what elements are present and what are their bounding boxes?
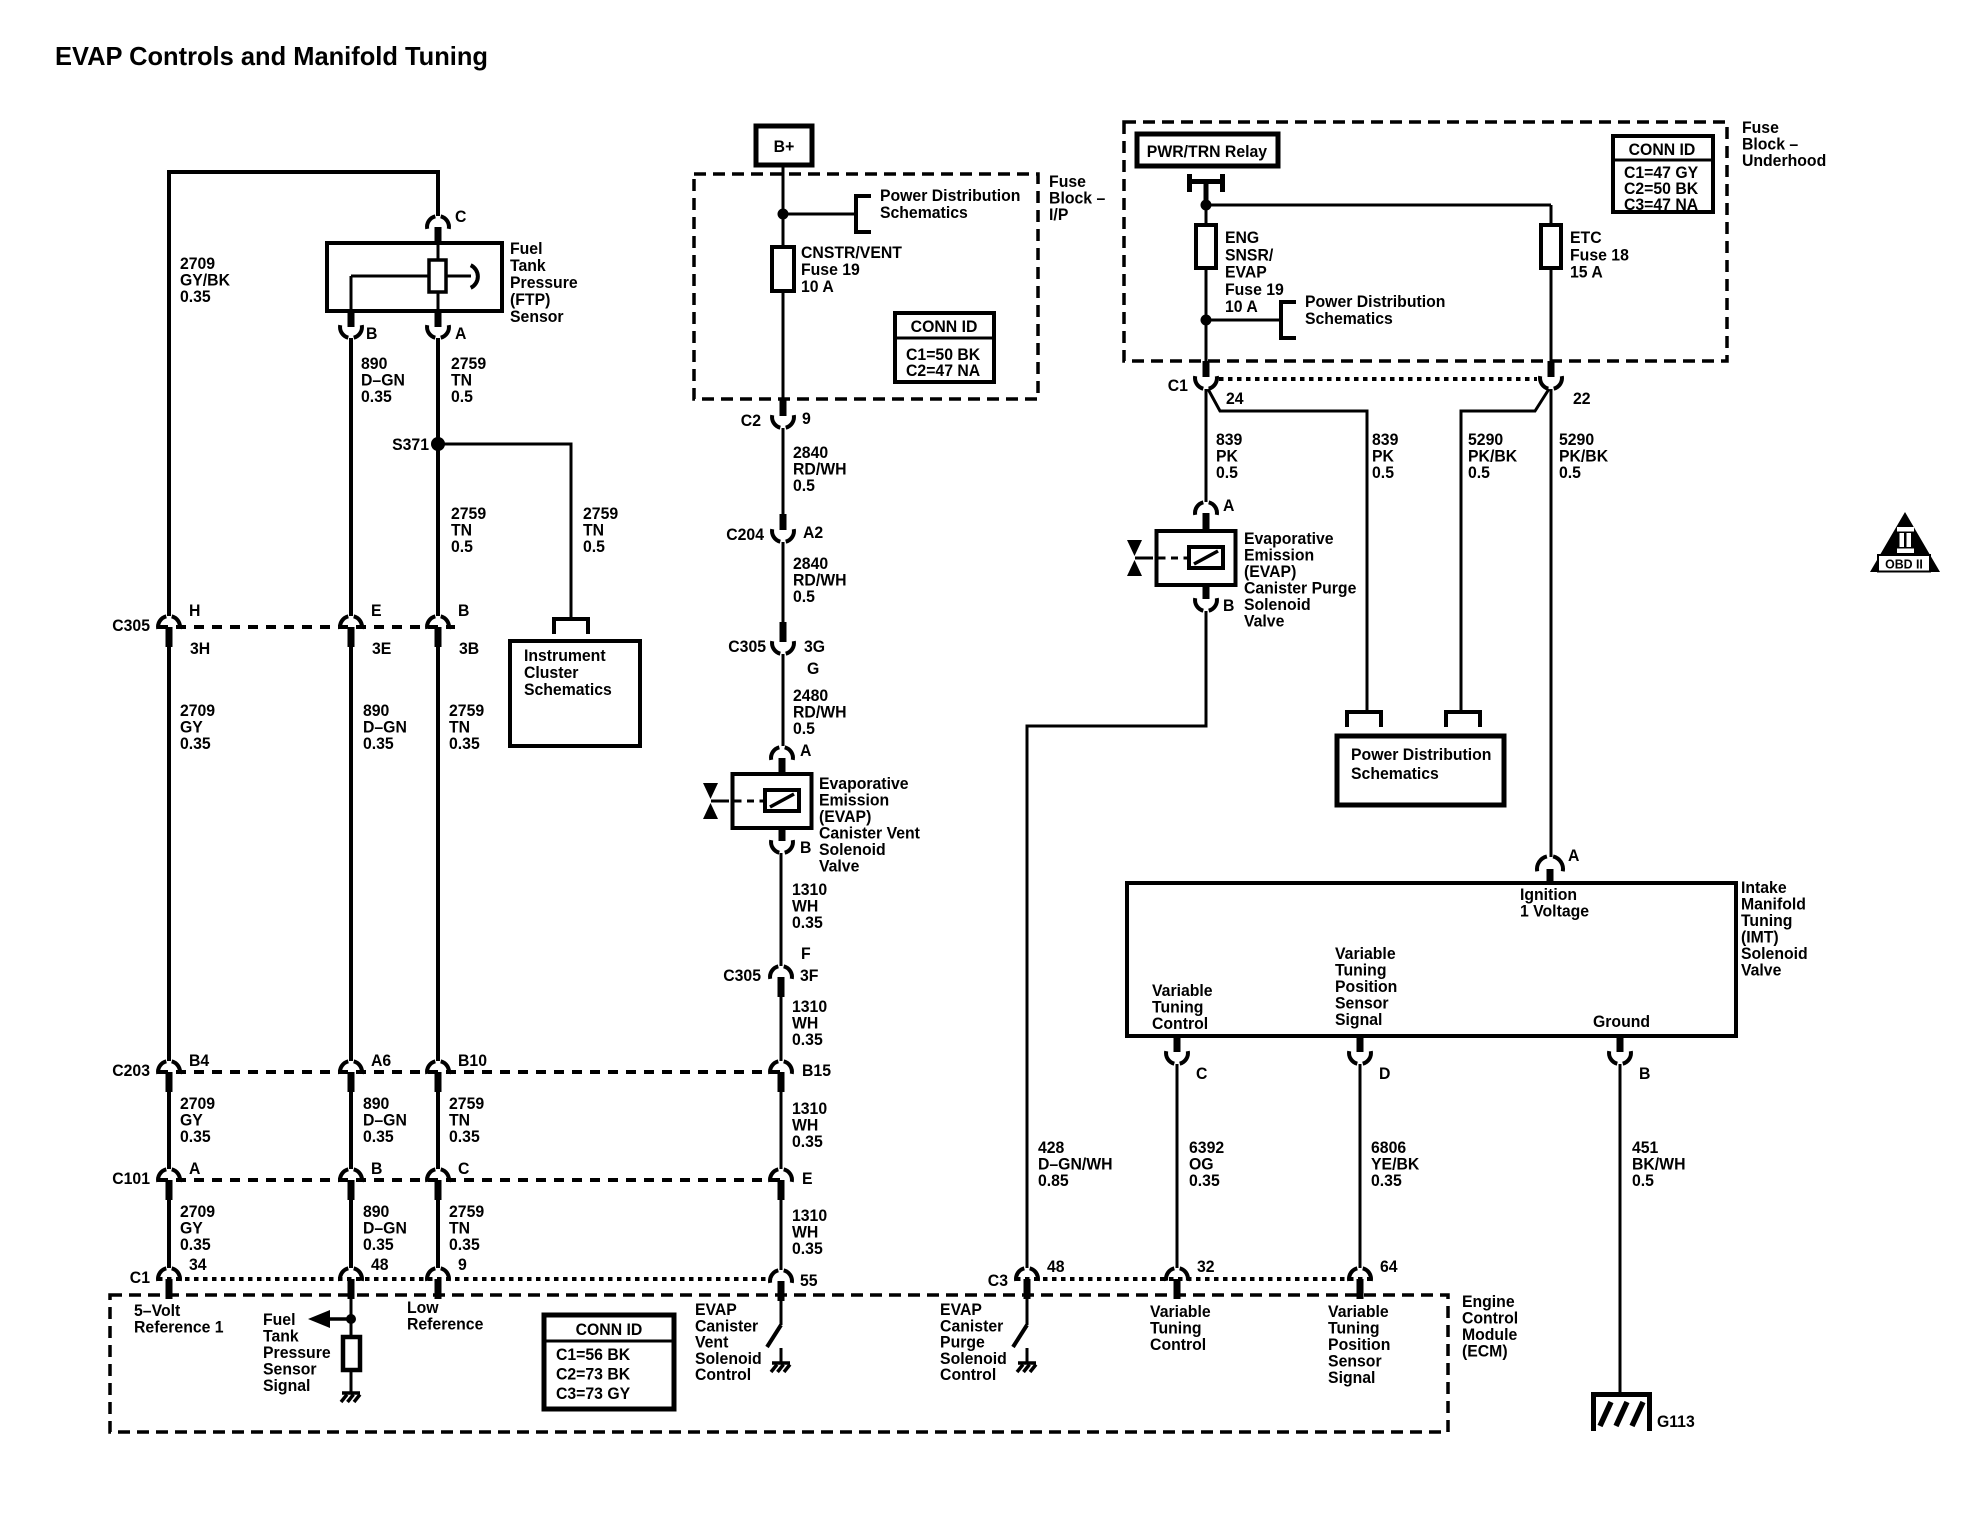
connector pin C (IMT valve) (1166, 1036, 1208, 1083)
power distribution fork (5290 PK/BK) (1446, 712, 1480, 727)
Instrument Cluster Schematics box (510, 641, 640, 746)
svg-text:3H: 3H (190, 640, 210, 659)
svg-text:Instrument: Instrument (524, 647, 606, 666)
svg-text:Signal: Signal (1335, 1011, 1382, 1030)
connector C101 pin C (427, 1160, 470, 1200)
svg-text:Ground: Ground (1593, 1013, 1650, 1032)
ground (vent control) (771, 1363, 790, 1372)
svg-text:0.85: 0.85 (1038, 1172, 1069, 1191)
connector C203 dashed line (158, 1070, 781, 1074)
label Evaporative Emission (EVAP) Canister Vent Solenoid Valve (819, 775, 921, 876)
power distribution fork (839 PK) (1347, 712, 1381, 727)
svg-text:0.35: 0.35 (363, 735, 394, 754)
svg-text:(ECM): (ECM) (1462, 1342, 1508, 1361)
svg-text:Control: Control (695, 1366, 751, 1385)
svg-text:C305: C305 (112, 617, 150, 636)
svg-text:Power Distribution: Power Distribution (1305, 293, 1445, 312)
svg-text:CONN ID: CONN ID (576, 1321, 643, 1340)
svg-text:0.35: 0.35 (449, 1128, 480, 1147)
svg-text:ETC: ETC (1570, 229, 1602, 248)
switch blade (vent control) (767, 1325, 781, 1347)
FTP sensor resistor element (429, 260, 446, 292)
svg-text:64: 64 (1380, 1258, 1398, 1277)
label wire 1310 WH 0.35 (1) (792, 881, 827, 933)
instrument cluster feed fork (554, 619, 588, 634)
svg-text:0.35: 0.35 (180, 1236, 211, 1255)
PWR/TRN Relay box (1137, 134, 1278, 166)
wire 890 D-GN (C203 to C101) (349, 1092, 353, 1169)
svg-text:0.5: 0.5 (1216, 464, 1238, 483)
label wire 890 D-GN 0.35 (lower) (363, 1203, 407, 1255)
connector C3 pin 32 (1166, 1258, 1215, 1299)
label Ignition 1 Voltage (1520, 886, 1589, 921)
label wire 2709 GY 0.35 (upper) (180, 702, 215, 754)
connector C203 pin B15 (770, 1061, 831, 1092)
wire 2759 TN branch to instrument cluster (438, 444, 571, 617)
svg-text:Valve: Valve (1741, 961, 1781, 980)
wire 839 PK (pin 24 down) (1205, 389, 1208, 502)
label wire 839 PK 0.5 (left) (1216, 431, 1242, 483)
svg-text:CONN ID: CONN ID (911, 318, 978, 337)
label Fuel Tank Pressure Sensor Signal (263, 1311, 331, 1396)
svg-text:Valve: Valve (1244, 612, 1284, 631)
svg-text:C305: C305 (723, 967, 761, 986)
svg-text:0.5: 0.5 (1468, 464, 1490, 483)
fuse CNSTR/VENT Fuse 19 (772, 247, 794, 291)
svg-text:0.5: 0.5 (1372, 464, 1394, 483)
connector pin B (purge valve) (1195, 585, 1235, 615)
svg-text:(FTP): (FTP) (510, 291, 550, 310)
power distribution bracket (underhood) (1281, 302, 1296, 338)
svg-text:Schematics: Schematics (524, 681, 612, 700)
svg-text:C2: C2 (741, 412, 761, 431)
svg-text:A6: A6 (371, 1052, 391, 1071)
svg-text:C2=47 NA: C2=47 NA (906, 362, 980, 381)
connector C305 pin 3G (728, 622, 825, 678)
label wire 890 D-GN 0.35 (361, 355, 405, 407)
svg-text:S371: S371 (392, 436, 429, 455)
svg-text:Reference: Reference (407, 1315, 483, 1334)
Fuse Block Underhood dashed box (1124, 122, 1727, 361)
label Instrument Cluster Schematics (524, 647, 612, 700)
wire variable tuning position (pin 64) (1359, 1298, 1362, 1301)
power distribution bracket (I/P) (856, 196, 871, 232)
connector C203 pin B4 (158, 1052, 210, 1092)
svg-text:A: A (1568, 847, 1580, 866)
svg-text:Schematics: Schematics (1351, 765, 1439, 784)
connector pin D (IMT valve) (1349, 1036, 1391, 1083)
connector C3 pin 48 (1016, 1258, 1065, 1299)
wire 2759 TN (A to S371) (436, 338, 440, 444)
wire 2709 GY (C305 to C203) (167, 647, 171, 1061)
connector C204 pin A2 (726, 514, 823, 544)
connector C101 pin E (770, 1169, 813, 1200)
label wire 2840 RD/WH 0.5 (upper) (793, 444, 847, 496)
svg-text:0.35: 0.35 (449, 735, 480, 754)
svg-text:C101: C101 (112, 1170, 150, 1189)
svg-text:Pressure: Pressure (510, 274, 578, 293)
connector C101 pin A (158, 1160, 201, 1200)
wire 2480 RD/WH (C305 to vent valve) (782, 654, 785, 746)
svg-text:C1: C1 (1168, 377, 1188, 396)
label Variable Tuning Position Sensor Signal (IMT) (1335, 945, 1397, 1030)
svg-text:0.35: 0.35 (363, 1128, 394, 1147)
svg-text:C2=73 BK: C2=73 BK (556, 1365, 630, 1384)
svg-text:A: A (1223, 497, 1235, 516)
label CNSTR/VENT Fuse 19 10 A (801, 244, 902, 297)
svg-text:55: 55 (800, 1272, 818, 1291)
label Ground (IMT) (1593, 1013, 1650, 1032)
label wire 5290 PK/BK 0.5 (right) (1559, 431, 1608, 483)
svg-text:3E: 3E (372, 640, 391, 659)
connector C305 pin E (340, 602, 391, 659)
label wire 6806 YE/BK 0.35 (1371, 1139, 1419, 1191)
svg-text:Underhood: Underhood (1742, 152, 1826, 171)
junction dot (relay output) (1201, 200, 1212, 211)
wire FTP signal (pin 48) (350, 1299, 353, 1337)
svg-text:22: 22 (1573, 390, 1591, 409)
svg-text:EVAP Controls and Manifold Tun: EVAP Controls and Manifold Tuning (55, 41, 488, 71)
wire 1310 WH (C305 to C203) (780, 997, 783, 1061)
svg-text:15 A: 15 A (1570, 263, 1603, 282)
svg-text:OBD II: OBD II (1885, 556, 1923, 572)
svg-text:Reference 1: Reference 1 (134, 1318, 224, 1337)
IMT solenoid valve box (1127, 883, 1736, 1036)
svg-text:Fuse 19: Fuse 19 (1225, 280, 1284, 299)
wire 890 D-GN (C305 to C203) (349, 647, 353, 1061)
connector C305 row label (112, 617, 150, 636)
wire 1310 WH (C203 to C101) (780, 1092, 783, 1169)
svg-text:Sensor: Sensor (510, 308, 564, 327)
wire fuse to C1 pin 24 (1205, 268, 1208, 361)
wire 2759 TN (C203 to C101) (436, 1092, 440, 1169)
relay contact symbol (1187, 174, 1225, 205)
svg-text:Tank: Tank (510, 257, 547, 276)
svg-text:E: E (371, 602, 382, 621)
wire fuse ETC to C1 pin 22 (1550, 268, 1553, 361)
label wire 2759 TN 0.35 (upper) (449, 702, 484, 754)
wire 1310 WH (C101 to C1) (780, 1200, 783, 1270)
FTP sensor transducer crescent (471, 265, 478, 288)
Fuel Tank Pressure sensor box (327, 243, 502, 311)
wire 428 D-GN/WH (purge valve to C3) (1027, 611, 1206, 1268)
connector C101 pin B (340, 1160, 383, 1200)
svg-text:0.5: 0.5 (451, 538, 473, 557)
Fuse Block I/P dashed box (694, 174, 1038, 399)
svg-text:0.35: 0.35 (180, 1128, 211, 1147)
label Fuse Block - Underhood (1742, 119, 1826, 171)
wire switch to ground (purge) (1026, 1348, 1029, 1362)
svg-text:0.5: 0.5 (793, 477, 815, 496)
label 5-Volt Reference 1 (134, 1302, 224, 1337)
label wire 2759 TN 0.5 (branch) (583, 505, 618, 557)
FTP signal arrow (308, 1310, 351, 1328)
power node B+ (756, 126, 812, 165)
wire 5290 PK/BK branch (1461, 389, 1549, 712)
fuse ETC Fuse 18 (1541, 225, 1561, 268)
svg-text:SNSR/: SNSR/ (1225, 246, 1274, 265)
label wire 2759 TN 0.35 (lower) (449, 1203, 484, 1255)
svg-text:B: B (371, 1160, 383, 1179)
label wire 1310 WH 0.35 (2) (792, 998, 827, 1050)
svg-text:Schematics: Schematics (1305, 310, 1393, 329)
label wire 2840 RD/WH 0.5 (lower) (793, 555, 847, 607)
svg-text:C1: C1 (130, 1269, 150, 1288)
connector pin B (vent valve) (771, 828, 812, 857)
label Power Distribution Schematics (underhood) (1305, 293, 1445, 329)
svg-text:EVAP: EVAP (1225, 263, 1267, 282)
connector C203 row label (112, 1062, 150, 1081)
svg-text:G113: G113 (1657, 1413, 1695, 1432)
svg-text:0.35: 0.35 (792, 1133, 823, 1152)
wire to power distribution reference (783, 213, 855, 216)
svg-text:B: B (1223, 597, 1235, 616)
svg-text:Power Distribution: Power Distribution (1351, 746, 1491, 765)
svg-text:B: B (1639, 1065, 1651, 1084)
svg-text:0.5: 0.5 (1632, 1172, 1654, 1191)
CONN ID table (ECM) (544, 1315, 674, 1409)
connector C1 dotted line (underhood) (1219, 377, 1537, 381)
svg-text:24: 24 (1226, 390, 1244, 409)
wire switch to ground (vent) (780, 1348, 783, 1362)
svg-text:B4: B4 (189, 1052, 210, 1071)
svg-text:Fuel: Fuel (510, 240, 542, 259)
connector C305 pin B (427, 602, 479, 659)
svg-text:0.35: 0.35 (361, 388, 392, 407)
label Intake Manifold Tuning (IMT) Solenoid Valve (1741, 879, 1808, 980)
connector C3 row label (988, 1272, 1008, 1291)
ground G113 (1594, 1395, 1695, 1432)
svg-text:0.5: 0.5 (451, 388, 473, 407)
wire 2759 TN (C101 to C1) (436, 1200, 440, 1268)
svg-text:3F: 3F (800, 967, 818, 986)
svg-text:I/P: I/P (1049, 206, 1068, 225)
label Engine Control Module (ECM) (1462, 1293, 1518, 1361)
svg-text:Control: Control (1150, 1336, 1206, 1355)
label wire 2709 GY 0.35 (mid) (180, 1095, 215, 1147)
wire 2840 RD/WH (C204 to C305) (782, 542, 785, 622)
label Variable Tuning Control (ECM) (1150, 1303, 1211, 1355)
connector C2 pin 9 (741, 399, 811, 430)
wire bus to fuse ETC (1550, 205, 1553, 225)
svg-text:Power Distribution: Power Distribution (880, 187, 1020, 206)
svg-text:9: 9 (802, 410, 811, 429)
wire 2759 TN (S371 to C305-B) (436, 444, 440, 616)
connector C305 pin 3F (723, 945, 818, 997)
svg-text:G: G (807, 660, 819, 679)
svg-text:0.5: 0.5 (1559, 464, 1581, 483)
wire to power distribution reference (underhood) (1206, 319, 1280, 322)
connector C203 pin A6 (340, 1052, 391, 1092)
label Fuse Block - I/P (1049, 173, 1105, 225)
wire B+ to fuse 19 (782, 165, 785, 247)
connector C1 pin 9 (427, 1256, 467, 1299)
junction dot (B+ feed) (778, 209, 789, 220)
junction dot (FTP signal) (346, 1314, 356, 1324)
wire relay to fuse ENG SNSR (1205, 205, 1208, 225)
label wire 890 D-GN 0.35 (upper) (363, 702, 407, 754)
wire 6806 YE/BK (D to pin 64) (1359, 1064, 1362, 1268)
svg-text:0.5: 0.5 (793, 720, 815, 739)
connector C1 (underhood) label (1168, 377, 1188, 396)
svg-text:C1=56 BK: C1=56 BK (556, 1346, 630, 1365)
Power Distribution Schematics box (1337, 736, 1504, 805)
label wire 2759 TN 0.5 (left) (451, 505, 486, 557)
splice S371 (392, 436, 445, 455)
connector C101 row label (112, 1170, 150, 1189)
label wire 428 D-GN/WH 0.85 (1038, 1139, 1113, 1191)
CONN ID table (I/P) (895, 313, 994, 382)
svg-text:Schematics: Schematics (880, 204, 968, 223)
label Fuel Tank Pressure (FTP) Sensor (510, 240, 578, 327)
switch blade (purge control) (1013, 1325, 1027, 1347)
label wire 2759 TN 0.35 (mid) (449, 1095, 484, 1147)
svg-text:48: 48 (371, 1256, 389, 1275)
svg-text:H: H (189, 602, 200, 621)
junction dot (power distribution tap) (1201, 315, 1212, 326)
label EVAP Canister Purge Solenoid Control (940, 1301, 1007, 1384)
FTP sensor internal wires (351, 243, 471, 311)
svg-text:0.35: 0.35 (180, 735, 211, 754)
svg-text:C: C (455, 208, 467, 227)
ECM pull-up resistor (343, 1337, 360, 1370)
connector pin A (purge valve) (1195, 497, 1235, 531)
wire vent control to switch (780, 1301, 783, 1325)
svg-text:0.35: 0.35 (1371, 1172, 1402, 1191)
wire 6392 OG (C to pin 32) (1176, 1064, 1179, 1268)
wire 2709 GY (C203 to C101) (167, 1092, 171, 1169)
svg-text:Control: Control (940, 1366, 996, 1385)
connector C1 dotted line (158, 1277, 770, 1281)
label wire 5290 PK/BK 0.5 (left) (1468, 431, 1517, 483)
svg-text:32: 32 (1197, 1258, 1215, 1277)
svg-text:0.35: 0.35 (792, 1240, 823, 1259)
svg-text:0.35: 0.35 (792, 914, 823, 933)
wire 2759 TN (C305 to C203) (436, 647, 440, 1061)
label wire 890 D-GN 0.35 (mid) (363, 1095, 407, 1147)
connector C1 pin 22 (1540, 361, 1591, 408)
Engine Control Module dashed box (110, 1295, 1448, 1432)
label wire 2709 GY/BK 0.35 (180, 255, 230, 307)
wire 2709 GY/BK top link (169, 172, 438, 616)
CONN ID table (underhood) (1613, 136, 1713, 214)
svg-text:C3=73 GY: C3=73 GY (556, 1385, 630, 1404)
svg-text:C3=47 NA: C3=47 NA (1624, 196, 1698, 215)
svg-text:0.35: 0.35 (363, 1236, 394, 1255)
svg-text:0.5: 0.5 (793, 588, 815, 607)
svg-text:0.5: 0.5 (583, 538, 605, 557)
svg-text:Control: Control (1152, 1015, 1208, 1034)
svg-text:PWR/TRN Relay: PWR/TRN Relay (1147, 143, 1268, 162)
connector pin A (FTP sensor) (427, 311, 466, 343)
label Variable Tuning Control (IMT) (1152, 982, 1213, 1034)
EVAP canister vent solenoid valve (703, 774, 812, 828)
svg-text:CONN ID: CONN ID (1629, 141, 1696, 160)
svg-text:3G: 3G (804, 638, 825, 657)
svg-text:3B: 3B (459, 640, 479, 659)
svg-text:48: 48 (1047, 1258, 1065, 1277)
connector C1 pin 55 (770, 1270, 818, 1301)
connector C3 dotted line (1016, 1277, 1374, 1281)
svg-text:A2: A2 (803, 524, 823, 543)
wire 839 PK branch (1208, 389, 1367, 712)
label wire 6392 OG 0.35 (1189, 1139, 1224, 1191)
svg-text:Signal: Signal (263, 1377, 310, 1396)
title (55, 41, 488, 71)
svg-text:CNSTR/VENT: CNSTR/VENT (801, 244, 902, 263)
label EVAP Canister Vent Solenoid Control (695, 1301, 762, 1384)
svg-text:D: D (1379, 1065, 1391, 1084)
svg-text:B10: B10 (458, 1052, 487, 1071)
label Variable Tuning Position Sensor Signal (ECM) (1328, 1303, 1390, 1388)
svg-text:Cluster: Cluster (524, 664, 579, 683)
label Low Reference (407, 1299, 483, 1334)
svg-text:0.35: 0.35 (792, 1031, 823, 1050)
svg-text:0.35: 0.35 (449, 1236, 480, 1255)
fuse ENG SNSR/EVAP Fuse 19 (1196, 225, 1216, 268)
svg-text:9: 9 (458, 1256, 467, 1275)
label wire 2709 GY 0.35 (lower) (180, 1203, 215, 1255)
svg-text:Valve: Valve (819, 857, 859, 876)
wire variable tuning control (pin 32) (1176, 1298, 1179, 1301)
wire 451 BK/WH (B to G113) (1619, 1064, 1622, 1392)
connector C1 pin 24 (1195, 361, 1244, 408)
label Power Distribution Schematics (I/P) (880, 187, 1020, 223)
wire resistor to ground (350, 1370, 353, 1392)
svg-text:C203: C203 (112, 1062, 150, 1081)
connector pin B (FTP sensor) (340, 311, 377, 343)
svg-text:E: E (802, 1170, 813, 1189)
svg-text:F: F (801, 945, 811, 964)
connector C1 row label (130, 1269, 150, 1288)
label wire 1310 WH 0.35 (4) (792, 1207, 827, 1259)
label wire 451 BK/WH 0.5 (1632, 1139, 1686, 1191)
svg-text:C: C (458, 1160, 470, 1179)
wire 890 D-GN (B to C305-E) (349, 338, 353, 616)
ground (purge control) (1017, 1363, 1036, 1372)
connector pin B (IMT valve) (1609, 1036, 1651, 1083)
connector pin A (IMT valve) (1537, 847, 1580, 883)
wire 890 D-GN (C101 to C1) (349, 1200, 353, 1268)
connector C101 dashed line (158, 1178, 781, 1182)
svg-text:C204: C204 (726, 526, 765, 545)
connector C3 pin 64 (1349, 1258, 1398, 1299)
label wire 839 PK 0.5 (right) (1372, 431, 1398, 483)
connector pin A (vent valve) (771, 742, 812, 774)
svg-text:B: B (366, 325, 378, 344)
wire purge control to switch (1026, 1299, 1029, 1325)
svg-text:0.35: 0.35 (180, 288, 211, 307)
svg-text:C: C (1196, 1065, 1208, 1084)
svg-text:Fuse 19: Fuse 19 (801, 261, 860, 280)
svg-text:B+: B+ (774, 138, 795, 157)
connector C305 pin H (158, 602, 210, 659)
OBD II marker (1870, 512, 1940, 572)
svg-text:Fuse 18: Fuse 18 (1570, 246, 1629, 265)
label Evaporative Emission (EVAP) Canister Purge Solenoid Valve (1244, 530, 1356, 631)
label wire 2759 TN 0.5 (451, 355, 486, 407)
wire 1310 WH (valve to C305) (780, 853, 783, 966)
wire fuse 19 to C2 (782, 291, 785, 400)
svg-text:34: 34 (189, 1256, 207, 1275)
svg-text:B15: B15 (802, 1062, 831, 1081)
connector pin C (FTP sensor) (427, 208, 466, 243)
connector C1 pin 34 (158, 1256, 207, 1299)
wire 2840 RD/WH (C2 to C204) (782, 428, 785, 514)
wire relay bus (1206, 204, 1551, 207)
connector C1 pin 48 (340, 1256, 389, 1299)
svg-text:B: B (458, 602, 470, 621)
